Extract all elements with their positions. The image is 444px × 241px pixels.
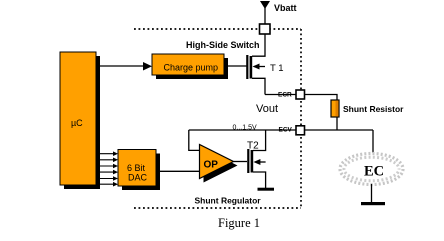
T2 drain wire — [253, 130, 266, 151]
T1 body arrow — [257, 66, 265, 68]
6 data arrows uC to DAC — [96, 151, 118, 186]
arrow into charge pump — [143, 62, 152, 71]
wire EC to ground — [371, 184, 373, 202]
svg-text:6 Bit: 6 Bit — [127, 163, 146, 173]
data wire 1 — [96, 153, 115, 155]
wire Vbatt to connector square — [264, 8, 266, 24]
data wire 5 — [96, 178, 115, 180]
svg-text:Figure 1: Figure 1 — [218, 216, 260, 230]
shunt resistor — [331, 100, 339, 117]
T1 drain wire — [252, 34, 265, 57]
data wire 4 — [96, 171, 115, 173]
T2 gate bar — [247, 149, 249, 173]
svg-text:Vbatt: Vbatt — [274, 3, 297, 13]
ECR connector square — [296, 90, 305, 99]
svg-text:High-Side Switch: High-Side Switch — [186, 40, 260, 50]
op-amp OP (shadow) — [204, 149, 238, 183]
T2 body arrow — [258, 161, 266, 163]
T1 gate bar — [246, 55, 248, 79]
wire shunt resistor to ECV line — [336, 117, 338, 130]
microcontroller uC block — [60, 52, 100, 189]
wire op-amp output to T2 gate — [234, 161, 248, 163]
T2 channel bar — [251, 150, 254, 173]
wire ECV corner down to EC — [372, 130, 374, 153]
op-amp OP — [200, 145, 234, 179]
charge pump block — [152, 54, 228, 79]
wire ECR square to shunt resistor — [305, 95, 338, 101]
data wire 3 — [96, 165, 115, 167]
data wire 2 — [96, 159, 115, 161]
Vbatt connector square — [260, 24, 271, 34]
data wire 6 — [96, 183, 115, 185]
svg-text:Charge pump: Charge pump — [164, 63, 219, 73]
transistor T2 (shunt regulator MOSFET) — [247, 130, 266, 188]
svg-text:Shunt Resistor: Shunt Resistor — [343, 104, 404, 114]
ground bar under EC — [361, 202, 385, 205]
dashed box right edge — [300, 29, 302, 208]
svg-text:EC: EC — [364, 164, 384, 180]
svg-text:µC: µC — [71, 118, 83, 128]
svg-text:ECR: ECR — [278, 92, 292, 99]
svg-text:ECV: ECV — [279, 127, 293, 134]
svg-text:0...1,5V: 0...1,5V — [233, 125, 257, 132]
ECV connector square — [296, 126, 305, 135]
wire ECV net (feedback line, 0...1,5V) — [189, 129, 373, 131]
wire DAC to op-amp - input — [160, 170, 200, 172]
wire T1 source to ECR square — [265, 94, 296, 96]
svg-text:Shunt Regulator: Shunt Regulator — [195, 196, 262, 206]
svg-text:OP: OP — [204, 160, 219, 171]
dashed box bottom edge — [134, 207, 301, 209]
external component EC (fuzzy ellipse) — [340, 154, 403, 185]
svg-text:Vout: Vout — [256, 103, 278, 115]
transistor T1 (high-side MOSFET) — [246, 34, 283, 95]
ground bar under T2 — [258, 188, 275, 191]
T2 source wire — [253, 172, 266, 188]
feedback wire down to op-amp + input — [189, 130, 200, 150]
T1 channel bar — [250, 56, 253, 79]
dashed box top edge (shunt regulator boundary) — [134, 28, 301, 30]
wire uC to charge pump — [96, 65, 144, 67]
wire charge pump to T1 gate — [228, 65, 247, 67]
T1 source wire — [252, 78, 265, 94]
svg-text:T2: T2 — [247, 141, 259, 152]
svg-text:T 1: T 1 — [270, 63, 284, 74]
6 Bit DAC block — [118, 150, 160, 191]
svg-text:DAC: DAC — [128, 173, 148, 183]
Vbatt supply symbol — [260, 1, 270, 9]
